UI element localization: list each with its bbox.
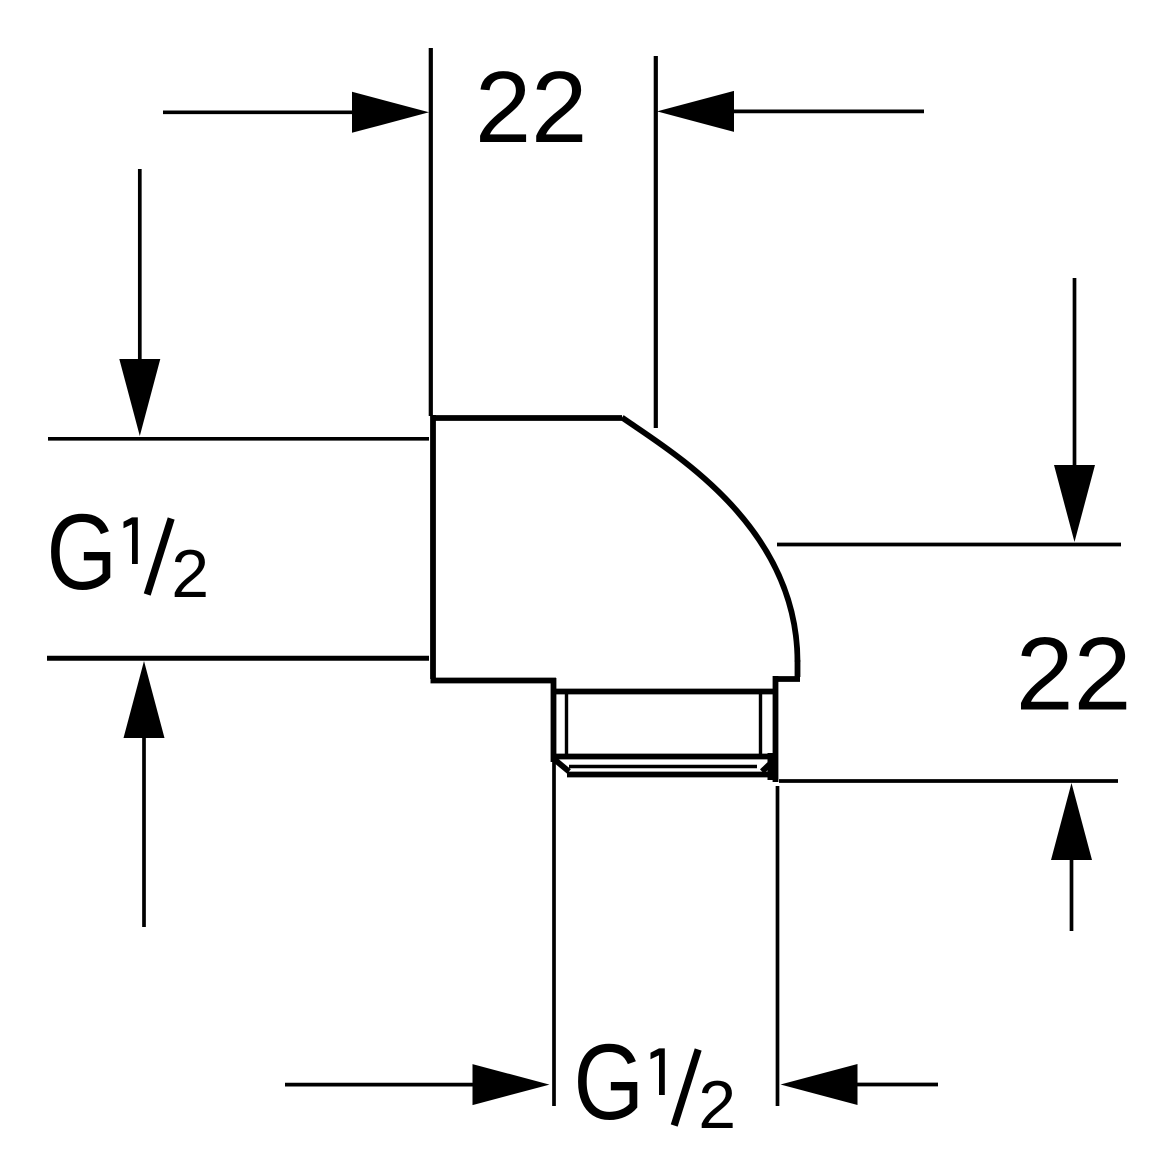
svg-text:22: 22 xyxy=(475,52,587,164)
svg-text:G: G xyxy=(47,493,118,613)
svg-text:22: 22 xyxy=(1016,617,1132,733)
svg-text:2: 2 xyxy=(698,1067,736,1143)
svg-text:2: 2 xyxy=(171,536,209,612)
svg-text:G: G xyxy=(574,1023,645,1143)
